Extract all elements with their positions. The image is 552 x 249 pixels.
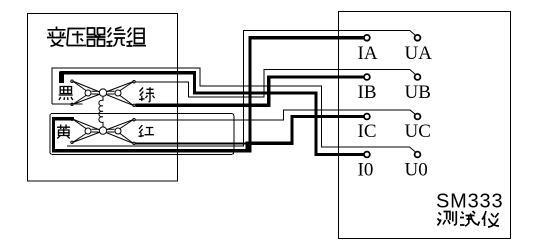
green clip lower jaw tip: [133, 104, 135, 106]
black clip upper jaw tip: [71, 80, 73, 82]
glyph 绕: [107, 27, 126, 46]
lever of terminal U0: [410, 147, 415, 152]
yellow clip pivot circle: [85, 128, 91, 134]
label 黑 (black clip): [59, 87, 73, 101]
terminal post IC: [364, 114, 370, 120]
svg-text:U0: U0: [405, 160, 428, 181]
yellow clip upper jaw tip: [71, 118, 73, 120]
wire thin: winding-1 lower lead stub under black clip: [52, 103, 83, 105]
glyph 测: [438, 211, 457, 226]
lever of terminal UC: [410, 110, 415, 114]
label 绿 (green clip): [139, 87, 155, 102]
wire thin: voltage lead UC to red clip: [135, 110, 410, 120]
glyph 仪: [482, 211, 499, 227]
wire thick: black clip lead to terminal I0: [62, 73, 364, 155]
glyph 组: [127, 28, 147, 47]
row1 middle joint circle: [99, 89, 106, 96]
glyph 器: [87, 28, 106, 46]
glyph 变: [47, 27, 66, 47]
winding-2 wire loop (row 2 rounded rectangle): [50, 114, 234, 155]
terminal post UC: [415, 114, 421, 120]
wire: red clip thin current lead segment: [135, 142, 247, 144]
terminal post IB: [364, 74, 370, 80]
svg-text:IA: IA: [358, 43, 378, 64]
black clip lower jaw tip: [71, 103, 73, 105]
svg-text:UB: UB: [405, 82, 431, 103]
title text 变压器绕组: [47, 27, 146, 47]
lever of terminal UB: [410, 70, 415, 75]
svg-text:I0: I0: [358, 160, 374, 181]
wire thick: yellow clip lead to terminal IA: [54, 38, 364, 151]
wire thin: voltage lead U0 to black clip, winding-1 upper loop: [52, 68, 410, 147]
terminal post IA: [364, 35, 370, 41]
svg-text:UC: UC: [405, 121, 431, 142]
label 红 (red clip): [139, 125, 155, 137]
red clip upper jaw tip: [133, 119, 135, 121]
svg-text:UA: UA: [405, 43, 433, 64]
terminal post U0: [415, 152, 421, 158]
glyph 试: [460, 211, 480, 226]
red clip pivot circle: [115, 128, 121, 134]
green clip upper jaw tip: [133, 81, 135, 83]
clip pair row2 (yellow clip / red clip) crossing handles: [73, 119, 134, 144]
clip pair row1 (black clip / green clip) crossing handles: [73, 81, 134, 106]
transformer winding coil symbol between rows: [99, 96, 103, 127]
svg-text:IB: IB: [358, 82, 377, 103]
wire thick: red clip lead to terminal IC: [247, 117, 364, 151]
svg-text:IC: IC: [358, 121, 377, 142]
label 黄 (yellow clip): [57, 125, 70, 139]
SM333 tester enclosure box: [339, 12, 511, 239]
terminal post UA: [415, 35, 421, 41]
wire thick: black clip lead gripped tip: [59, 72, 64, 84]
glyph 压: [67, 29, 86, 46]
wire thick: green clip lead to terminal IB: [136, 77, 364, 105]
yellow clip lower jaw tip: [71, 141, 73, 143]
terminal name labels IA UA IB UB IC UC I0 U0: [358, 43, 433, 181]
terminal post UB: [415, 74, 421, 80]
row2 middle joint circle: [99, 127, 106, 134]
svg-text:SM333: SM333: [436, 191, 503, 213]
red clip lower jaw tip: [133, 142, 135, 144]
black clip pivot circle: [85, 90, 91, 96]
wire thin: voltage lead UA to yellow clip: [67, 31, 410, 147]
wire thin: voltage lead UB to green clip: [135, 70, 410, 97]
clip pair row2 jaw edges: [73, 119, 134, 144]
clip pair row1 spring bars: [92, 91, 115, 94]
clip pair row1 jaw edges: [73, 81, 134, 106]
green clip pivot circle: [115, 90, 121, 96]
terminal post I0: [364, 152, 370, 158]
transformer winding enclosure box (变压器绕组): [28, 14, 178, 182]
lever of terminal UA: [410, 31, 415, 36]
clip pair row2 spring bars: [92, 129, 115, 132]
label 测试仪 (tester): [438, 211, 500, 227]
